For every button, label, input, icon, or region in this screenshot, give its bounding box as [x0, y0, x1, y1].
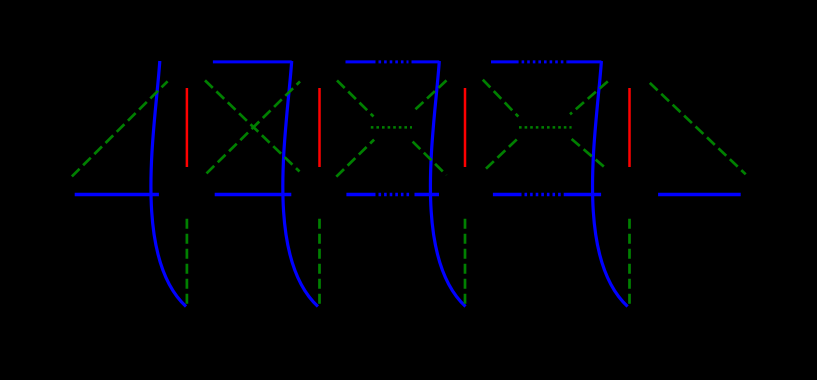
- wire: blue curve U4: [593, 61, 628, 307]
- wire: top bracket T3 right solid part: [412, 60, 440, 63]
- red bond U2: [318, 88, 321, 167]
- green dashed X diagonal D1 (U1-U2, descending): [205, 80, 300, 171]
- wire: top bracket T4 left solid part: [491, 60, 519, 63]
- wire: main chain line segment S5: [658, 193, 741, 196]
- wire: main chain line segment S4 right solid part: [566, 193, 601, 196]
- green dashed stretched-X U3-U4 left bottom diagonal: [486, 137, 519, 168]
- green dashed stretched-X U2-U3 right bottom diagonal: [413, 142, 447, 176]
- wire: main chain line segment S2: [215, 193, 292, 196]
- wire: main chain line segment S4 dotted ellipsis: [525, 193, 567, 196]
- wire: blue curve U2: [283, 61, 318, 307]
- green dashed stretched-X U3-U4 left top diagonal: [483, 80, 519, 117]
- green dashed left boundary diagonal: [72, 81, 168, 176]
- green dashed vertical bond U4: [628, 219, 631, 305]
- green dashed right boundary diagonal: [650, 83, 746, 174]
- wire: main chain line segment S3 right solid part: [415, 193, 440, 196]
- wire: top bracket T3 left solid part: [346, 60, 376, 63]
- green dashed vertical bond U3: [464, 219, 467, 305]
- green dotted ellipsis U3-U4: [519, 126, 572, 129]
- wire: blue curve U1: [151, 61, 186, 307]
- red bond U1: [186, 88, 189, 167]
- wire: main chain line segment S3 left solid part: [346, 193, 375, 196]
- red bond U4: [628, 88, 631, 167]
- wire: top bracket T4 right solid part: [567, 60, 601, 63]
- green dashed X diagonal D2 (U1-U2, ascending): [207, 81, 301, 173]
- wire: top bracket T3 dotted ellipsis: [379, 60, 409, 63]
- wire: main chain line segment S4 left solid part: [493, 193, 522, 196]
- red bond U3: [464, 88, 467, 167]
- green dashed stretched-X U3-U4 right bottom diagonal: [572, 139, 607, 169]
- green dashed vertical bond U1: [186, 219, 189, 305]
- wire: top bracket T4 dotted ellipsis: [522, 60, 568, 63]
- green dashed vertical bond U2: [318, 219, 321, 305]
- wire: blue curve U3: [430, 61, 465, 307]
- green dotted ellipsis U2-U3: [371, 126, 412, 129]
- green dashed stretched-X U3-U4 right top diagonal: [570, 81, 608, 114]
- wire: top bracket T2: [213, 60, 292, 63]
- green dashed stretched-X U2-U3 right top diagonal: [412, 80, 447, 112]
- green dashed stretched-X U2-U3 left top diagonal: [337, 80, 374, 116]
- wire: main chain line segment S3 dotted ellipsis: [379, 193, 412, 196]
- wire: main chain line segment S1: [75, 193, 159, 196]
- green dashed stretched-X U2-U3 left bottom diagonal: [336, 140, 374, 177]
